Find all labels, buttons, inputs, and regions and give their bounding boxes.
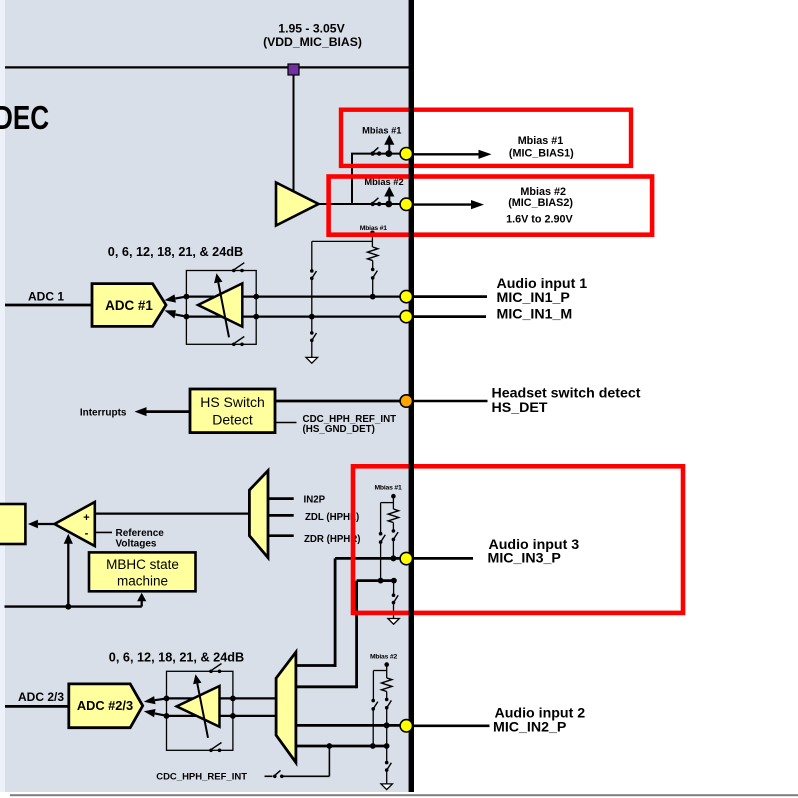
switch S3 (371, 268, 377, 297)
ADC #2/3 block (69, 684, 143, 728)
svg-text:IN2P: IN2P (304, 494, 326, 505)
arrow comparator to block (28, 520, 54, 529)
svg-text:machine: machine (117, 573, 168, 588)
svg-text:MIC_IN3_P: MIC_IN3_P (488, 550, 561, 566)
node VDD tap (purple square) (288, 64, 299, 75)
wire MIC_IN1_P (186, 296, 402, 298)
op-amp mic bias buffer (276, 183, 319, 226)
pin MIC_IN1_M (400, 310, 412, 322)
red highlight box 3 (353, 466, 683, 613)
mux M2 (276, 652, 296, 762)
svg-text:MBHC state: MBHC state (106, 557, 179, 572)
svg-text:Reference: Reference (116, 528, 165, 539)
switch S2 (Mbias #2) (371, 198, 393, 208)
switch S5 (310, 331, 317, 357)
switch S4 (310, 269, 317, 331)
pin MIC_BIAS1 (400, 148, 412, 160)
svg-text:MIC_IN1_P: MIC_IN1_P (497, 290, 570, 306)
junction dots wire MIC_IN1_M (184, 314, 190, 320)
svg-text:ADC 1: ADC 1 (28, 290, 64, 304)
svg-text:ADC #2/3: ADC #2/3 (77, 698, 133, 713)
wire into ADC2/3 bottom arrow (144, 709, 167, 717)
svg-text:ADC 2/3: ADC 2/3 (18, 690, 64, 704)
switch S8 (392, 529, 399, 558)
switch S16 (CDC_HPH_REF_INT) (265, 746, 330, 778)
svg-text:(HS_GND_DET): (HS_GND_DET) (303, 424, 375, 435)
HS Switch Detect block (190, 389, 275, 433)
ground (381, 784, 392, 790)
switch S9 (379, 532, 385, 581)
wire ZDL stub (268, 514, 294, 517)
codec left margin strip (0, 0, 5, 792)
svg-text:HS_DET: HS_DET (492, 400, 548, 416)
wire MIC_IN1_M (186, 316, 402, 318)
wire MIC_IN3_P (335, 557, 402, 560)
wire ADC1 output (5, 304, 92, 307)
switch S11 (box top) (209, 664, 221, 674)
wire CDC_HPH_REF_INT stub (275, 422, 297, 424)
wire into ADC1 plus arrow (165, 294, 187, 302)
switch S13 (371, 699, 377, 746)
svg-text:1.6V to 2.90V: 1.6V to 2.90V (506, 214, 573, 226)
svg-text:Mbias #1: Mbias #1 (374, 484, 402, 491)
svg-text:CODEC: CODEC (0, 100, 49, 137)
svg-text:1.95 - 3.05V: 1.95 - 3.05V (278, 21, 345, 35)
arrow MIC_BIAS1 out (414, 150, 492, 159)
thick codec boundary line (409, 0, 414, 792)
mux M1 (249, 471, 268, 558)
switch S14 (385, 698, 391, 762)
pin MIC_IN3_P (400, 552, 412, 564)
switch S12 (box bottom) (209, 743, 221, 753)
arrow into MBHC block (137, 593, 146, 607)
resistor R1 (Mbias #1 pull-up) (360, 225, 388, 268)
svg-text:(MIC_BIAS1): (MIC_BIAS1) (509, 148, 574, 160)
wire sub node (357, 579, 394, 582)
MBHC state machine block (89, 552, 196, 591)
resistor R3 (Mbias #2) (370, 653, 398, 698)
ADC #1 block (92, 284, 166, 327)
wire PGA2 bottom input (167, 715, 277, 717)
wire branch up to MIC_BIAS1 switch (352, 154, 402, 204)
wire MIC_IN3_P stub (413, 557, 473, 560)
switch S6 (box top) (232, 263, 244, 273)
resistor R2 (Mbias #1 to MIC_IN3) (374, 484, 402, 529)
thick codec boundary line overlay (409, 0, 414, 792)
svg-text:Mbias #1: Mbias #1 (518, 135, 564, 147)
junction dots wire MIC_IN1_P (184, 294, 190, 300)
svg-text:Voltages: Voltages (116, 538, 157, 549)
arrow to Interrupts (135, 407, 191, 416)
svg-text:MIC_IN1_M: MIC_IN1_M (497, 306, 573, 322)
amplifier PGA2 enclosure box (167, 671, 233, 750)
amplifier PGA1 enclosure box (186, 271, 256, 345)
svg-text:Interrupts: Interrupts (80, 407, 127, 418)
op-amp comparator U2 (55, 502, 95, 546)
ground (388, 619, 399, 625)
switch S1 (Mbias #1) (371, 147, 393, 157)
wire down to mux2 (355, 581, 358, 689)
wire tee to left leg (312, 240, 373, 242)
switch S10 to ground (392, 581, 399, 619)
wire buffer output to MIC_BIAS2 pin (317, 203, 402, 205)
wire IN2P stub (268, 497, 294, 500)
wire MIC_IN2_P (296, 724, 402, 727)
wire reference stub (95, 531, 112, 533)
wire mux2 input 2 (296, 685, 357, 688)
svg-text:(VDD_MIC_BIAS): (VDD_MIC_BIAS) (263, 35, 362, 49)
wire comparator plus input from mux (95, 512, 250, 514)
pin HS_DET (400, 395, 412, 407)
wire MIC_IN1_P stub (413, 295, 487, 298)
wire VDD rail (5, 66, 409, 68)
svg-text:-: - (85, 527, 89, 539)
svg-text:CDC_HPH_REF_INT: CDC_HPH_REF_INT (156, 771, 247, 782)
wire MIC_IN2_P stub (413, 724, 490, 727)
switch S7 (box bottom) (232, 337, 244, 347)
page bottom rule (10, 794, 798, 796)
svg-text:Mbias #1: Mbias #1 (360, 225, 388, 232)
svg-text:HS Switch: HS Switch (200, 394, 265, 410)
svg-text:(MIC_BIAS2): (MIC_BIAS2) (508, 197, 573, 209)
comparator output block (clipped at left) (0, 504, 25, 544)
op-amp PGA1 (198, 283, 242, 326)
svg-text:Detect: Detect (212, 411, 253, 427)
wire tee left leg (381, 502, 394, 504)
gain arrow PGA2 (193, 674, 208, 738)
pin MIC_IN2_P (400, 720, 412, 732)
arrow MIC_BIAS2 out (414, 200, 484, 209)
wire ADC2/3 output (5, 705, 69, 708)
wire PGA2 top input (167, 697, 277, 699)
red highlight box 1 (341, 110, 631, 166)
wire tee left leg Mbias2 (373, 670, 386, 672)
wire MIC_IN3 route down (334, 558, 337, 667)
svg-text:+: + (83, 512, 89, 524)
codec body background (5, 0, 409, 792)
arrow Mbias #1 (384, 135, 394, 154)
svg-text:Mbias #1: Mbias #1 (362, 126, 401, 136)
svg-text:0, 6, 12, 18, 21, & 24dB: 0, 6, 12, 18, 21, & 24dB (109, 651, 244, 665)
junction dots PGA2 wires (164, 696, 170, 702)
op-amp PGA2 (177, 686, 220, 727)
ground (306, 357, 318, 363)
red highlight box 2 (329, 177, 652, 235)
switch S15 to ground (385, 761, 391, 784)
svg-text:0, 6, 12, 18, 21, & 24dB: 0, 6, 12, 18, 21, & 24dB (108, 245, 243, 259)
svg-text:MIC_IN2_P: MIC_IN2_P (493, 719, 566, 735)
wire MIC_IN1_M stub (413, 315, 486, 318)
wire HS_DET (275, 400, 402, 403)
wire MBHC feed (5, 605, 142, 607)
svg-text:ADC #1: ADC #1 (105, 298, 153, 313)
wire mux2 input 4 (296, 745, 387, 748)
wire VDD tap down to buffer (293, 75, 295, 193)
pin MIC_IN1_P (400, 290, 412, 302)
wire into ADC1 minus arrow (165, 310, 187, 318)
svg-text:Mbias #2: Mbias #2 (370, 653, 398, 660)
wire ZDR stub (268, 534, 294, 537)
wire into ADC2/3 top arrow (144, 696, 167, 704)
pin MIC_BIAS2 (400, 198, 412, 210)
wire HS_DET stub (413, 400, 488, 403)
gain arrow PGA1 (214, 273, 229, 337)
arrow into comparator bottom (64, 534, 73, 607)
arrow Mbias #2 (384, 187, 394, 205)
